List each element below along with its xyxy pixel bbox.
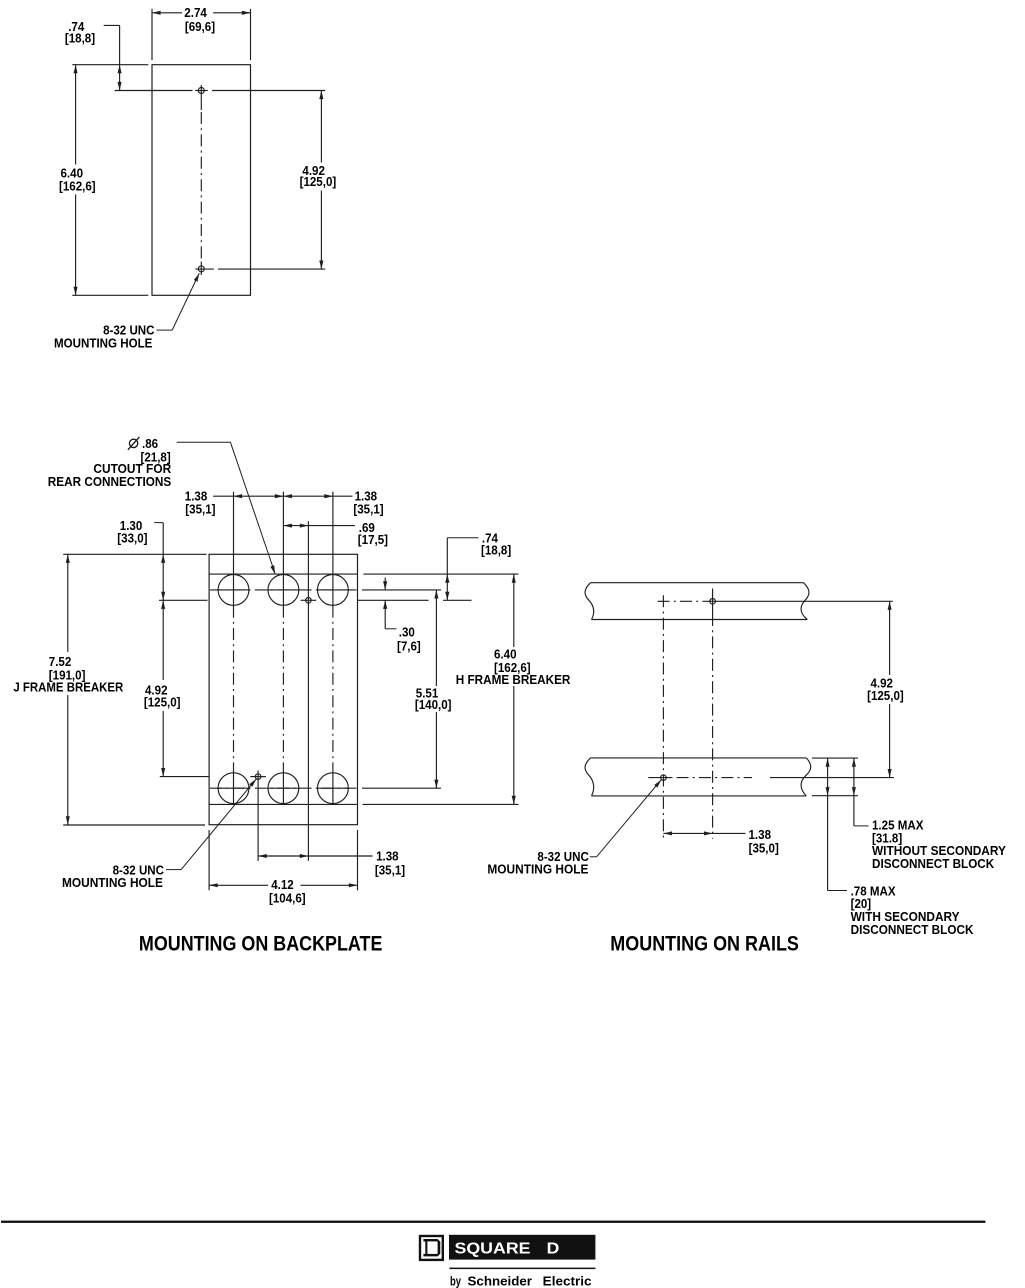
svg-text:[140,0]: [140,0] <box>415 698 452 713</box>
svg-text:MOUNTING ON RAILS: MOUNTING ON RAILS <box>610 932 799 955</box>
Square D logo: D square emblem <box>420 1236 443 1260</box>
dimension .30 [7,6] dimension lines with outside arrows <box>384 578 386 590</box>
svg-text:[125,0]: [125,0] <box>867 688 904 703</box>
top view: top hole horizontal line / extension <box>115 90 193 92</box>
rails view: top rail upper edge <box>591 582 804 584</box>
svg-text:.30: .30 <box>399 625 415 640</box>
dimension 6.40 [162,6] dimension line (backplate) <box>513 574 515 647</box>
svg-text:[104,6]: [104,6] <box>269 891 306 906</box>
svg-text:MOUNTING HOLE: MOUNTING HOLE <box>54 336 152 351</box>
svg-text:MOUNTING HOLE: MOUNTING HOLE <box>487 862 588 877</box>
svg-text:[18,8]: [18,8] <box>65 31 95 46</box>
svg-text:Schneider: Schneider <box>468 1274 533 1288</box>
dimension 5.51 [140,0] dimension line with arrows <box>435 590 437 686</box>
svg-text:[35,1]: [35,1] <box>185 502 215 517</box>
small hole vertical extension line (long, top to bottom dim) <box>307 521 309 861</box>
dimension 1.38 [35,0] dimension line with arrows (rails) <box>663 832 745 834</box>
svg-text:SQUARE: SQUARE <box>455 1240 531 1257</box>
rect-bottom extension line left (backplate) <box>63 824 205 826</box>
rect-bottom extension line left <box>72 294 148 296</box>
svg-text:[17,5]: [17,5] <box>358 532 388 547</box>
svg-text:[35,1]: [35,1] <box>353 502 383 517</box>
top view: bottom mounting hole <box>198 266 204 272</box>
dimension 2.74 [69,6] dimension line with arrows <box>152 12 182 14</box>
dimension 4.12 [104,6] dimension line with arrows <box>209 884 268 886</box>
top circle centerline extension right <box>362 589 441 591</box>
Square D logo: underline <box>449 1268 595 1270</box>
rails view: top hole horizontal centerline + extension right <box>658 600 704 602</box>
top view: top mounting hole <box>198 88 204 94</box>
dimension 4.92 [125,0] dimension line with arrows <box>320 91 322 163</box>
dimension 1.30 [33,0] leader and dimension line <box>154 522 163 524</box>
leader to bottom mounting hole (top view) <box>157 329 173 331</box>
top view: vertical centerline between mounting holes <box>200 112 202 260</box>
svg-text:H FRAME BREAKER: H FRAME BREAKER <box>456 672 571 687</box>
H-frame top extension line right <box>363 573 518 575</box>
svg-text:[35,1]: [35,1] <box>375 863 405 878</box>
dimension .74 [18,8] leader (backplate right) <box>447 537 478 539</box>
dimension 1.38 top dimension line with arrows <box>213 495 353 497</box>
rect-top extension line left <box>72 64 148 66</box>
dimension 1.25 MAX vertical line with arrows <box>853 758 855 826</box>
left extension line at bottom small hole level <box>160 776 209 778</box>
backplate view: H-frame top edge line <box>209 573 357 575</box>
dimension .69 [17,5] dimension line with arrows <box>283 525 355 527</box>
svg-text:D: D <box>547 1240 560 1257</box>
dimension 2.74 [69,6] extension lines <box>151 9 153 60</box>
rails view: left column centerline (dash-dot) <box>662 595 664 839</box>
backplate: bottom rear-connection cutout circles <box>218 773 249 804</box>
rails view: bottom rail left break squiggle <box>585 758 594 796</box>
rails view: bottom rail lower edge <box>592 795 807 797</box>
rails view: right column centerline (dash-dot) <box>712 614 714 839</box>
leader from cutout label to middle circle <box>177 441 231 443</box>
rails view: bottom rail mounting hole <box>661 775 667 781</box>
svg-text:[125,0]: [125,0] <box>144 695 181 710</box>
svg-text:DISCONNECT BLOCK: DISCONNECT BLOCK <box>851 922 974 937</box>
H-frame bottom extension line right <box>363 803 519 805</box>
svg-text:4.12: 4.12 <box>271 877 294 892</box>
backplate: top rear-connection cutout circles <box>218 575 249 606</box>
rails view: bottom rail upper edge <box>591 757 807 759</box>
leader to bottom small hole (backplate) <box>166 869 181 871</box>
footer horizontal rule <box>1 1221 985 1223</box>
left extension line at top small hole level <box>159 599 208 601</box>
bottom circle centerline extension right <box>362 787 441 789</box>
top view: bottom hole extension line right <box>218 268 325 270</box>
rails view: top rail right break squiggle <box>801 583 809 620</box>
backplate: column centerlines (dash-dot with solid cross in circles) <box>233 574 235 605</box>
rails view: bottom hole horizontal centerline + extension right <box>648 777 654 779</box>
svg-text:Electric: Electric <box>543 1274 592 1288</box>
backplate: top row horizontal centerline <box>210 589 358 591</box>
top view: breaker outline rectangle <box>152 65 251 296</box>
svg-text:[162,6]: [162,6] <box>59 179 96 194</box>
rect-top extension line left (backplate) <box>63 553 206 555</box>
dimension 7.52 [191,0] dimension line with arrows <box>67 554 69 652</box>
dimension .74 [18,8] leader and dimension line <box>104 24 120 26</box>
svg-text:MOUNTING HOLE: MOUNTING HOLE <box>62 875 163 890</box>
label dia .86 cutout for rear connections <box>128 437 139 450</box>
top view: bottom hole cross line <box>195 268 214 270</box>
dimension 1.38 [35,1] bottom dimension line with arrows <box>258 855 372 857</box>
bottom small hole extension line down <box>257 771 259 861</box>
leader to bottom rail hole (rails) <box>590 856 597 858</box>
backplate: bottom row horizontal centerline <box>210 787 358 789</box>
backplate view: breaker outline rectangle (J frame) <box>209 554 357 824</box>
rails view: top rail mounting hole <box>710 599 716 605</box>
svg-text:[7,6]: [7,6] <box>397 639 421 654</box>
svg-text:[35,0]: [35,0] <box>749 841 779 856</box>
Square D logo: black banner with SQUARE D text <box>449 1235 595 1260</box>
svg-text:[125,0]: [125,0] <box>300 175 337 190</box>
backplate: bottom small mounting hole <box>255 774 261 780</box>
svg-text:1.38: 1.38 <box>748 827 771 842</box>
svg-text:[18,8]: [18,8] <box>481 543 511 558</box>
rails view: top rail lower edge <box>592 619 808 621</box>
svg-text:1.38: 1.38 <box>376 849 399 864</box>
svg-text:2.74: 2.74 <box>184 5 207 20</box>
extension lines above top circles <box>233 492 235 575</box>
rails: max rail width extension lines right <box>812 757 858 759</box>
rect corner extension lines down <box>208 830 210 890</box>
rails view: top rail left break squiggle <box>585 583 594 620</box>
svg-text:DISCONNECT BLOCK: DISCONNECT BLOCK <box>872 856 994 871</box>
backplate: top small mounting hole <box>306 598 312 604</box>
dimension 4.92 [125,0] dimension line (rails) <box>889 601 891 675</box>
dimension 4.92 [125,0] dimension line (backplate) <box>162 600 164 680</box>
svg-text:by: by <box>450 1274 461 1288</box>
svg-text:REAR CONNECTIONS: REAR CONNECTIONS <box>48 474 171 489</box>
svg-text:J FRAME BREAKER: J FRAME BREAKER <box>13 680 123 695</box>
svg-text:[69,6]: [69,6] <box>185 20 215 35</box>
svg-text:[33,0]: [33,0] <box>117 531 147 546</box>
svg-text:MOUNTING ON BACKPLATE: MOUNTING ON BACKPLATE <box>139 932 383 955</box>
rails view: top hole vertical cross <box>712 589 714 615</box>
rails view: bottom rail right break squiggle <box>801 758 811 796</box>
backplate view: H-frame bottom edge line <box>209 803 357 805</box>
dimension 6.40 [162,6] dimension line with arrows <box>75 65 77 165</box>
top hole extension line right (broken at 5.51 line) <box>358 599 429 601</box>
dimension .78 MAX vertical line with arrows <box>827 758 829 890</box>
